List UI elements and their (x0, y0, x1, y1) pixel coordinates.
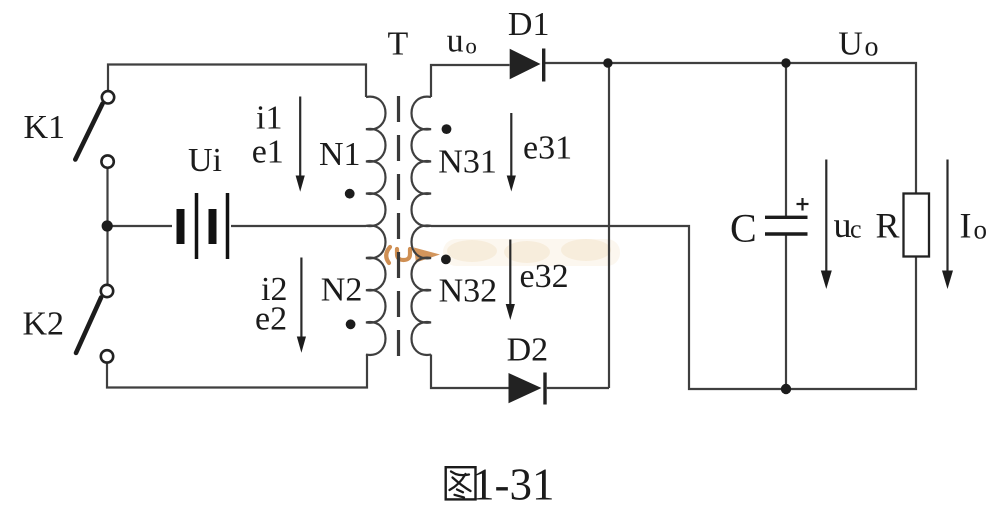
svg-text:e32: e32 (520, 258, 569, 295)
svg-text:D2: D2 (507, 332, 549, 369)
svg-text:u: u (834, 205, 852, 245)
svg-text:i1: i1 (256, 99, 282, 136)
svg-text:N2: N2 (321, 272, 363, 309)
svg-text:e1: e1 (252, 133, 284, 170)
svg-text:e2: e2 (255, 301, 287, 338)
svg-text:U: U (838, 26, 863, 63)
svg-text:N31: N31 (438, 143, 497, 180)
svg-text:N1: N1 (319, 136, 361, 173)
svg-text:R: R (876, 206, 900, 246)
svg-text:1-31: 1-31 (472, 460, 555, 510)
svg-text:e31: e31 (523, 129, 572, 166)
svg-text:I: I (960, 206, 972, 246)
svg-text:D1: D1 (508, 6, 550, 43)
svg-text:o: o (465, 34, 477, 59)
svg-text:Ui: Ui (188, 142, 222, 179)
svg-text:o: o (974, 215, 988, 245)
svg-text:K1: K1 (24, 109, 66, 146)
svg-text:c: c (850, 215, 862, 244)
svg-text:N32: N32 (439, 273, 498, 310)
svg-text:o: o (865, 32, 879, 63)
svg-text:u: u (447, 23, 464, 60)
svg-text:T: T (388, 25, 409, 62)
svg-text:C: C (730, 206, 757, 251)
svg-text:K2: K2 (23, 306, 65, 343)
